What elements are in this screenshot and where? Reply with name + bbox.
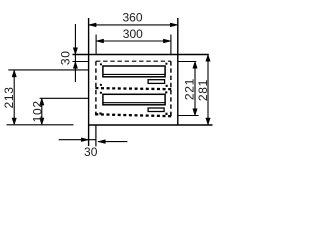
dashed cover outline bottom — [95, 114, 171, 116]
arrow 30top lower (points up) — [73, 62, 77, 69]
arrow 281 top (points up) — [206, 55, 210, 62]
svg-text:30: 30 — [59, 50, 73, 65]
svg-text:30: 30 — [84, 145, 98, 159]
dashed cover outline right — [170, 61, 172, 115]
svg-text:102: 102 — [31, 100, 45, 122]
wire cover top extension left — [73, 61, 89, 63]
arrow 360 right — [170, 23, 178, 27]
terminal block row 1 — [148, 80, 165, 84]
fixing square row2 top-left — [100, 92, 102, 94]
wire 213 top extension — [8, 69, 88, 71]
arrow 102 bottom (points down) — [40, 118, 44, 125]
arrow 213 bottom (points down) — [12, 118, 16, 125]
dimension line 30 bottom — [59, 139, 96, 141]
dimension line 213 — [13, 71, 15, 125]
arrow 102 top (points up) — [40, 98, 44, 105]
svg-text:300: 300 — [123, 27, 143, 41]
enclosure outline — [73, 18, 213, 146]
arrow 30top upper (points down) — [73, 48, 77, 55]
busbar row 2 body — [103, 94, 165, 105]
arrow 360 left — [89, 23, 97, 27]
dashed cover outline top — [96, 60, 171, 62]
busbar row 1 body — [103, 66, 165, 77]
svg-text:213: 213 — [2, 86, 16, 108]
arrow 213 top (points up) — [12, 70, 16, 77]
wire right edge + 360 extension — [177, 18, 179, 125]
fixing square row2 bottom-left — [99, 112, 101, 114]
dashed cover outline left — [95, 61, 97, 115]
svg-text:281: 281 — [196, 79, 210, 101]
arrow 281 bottom (points down) — [206, 118, 210, 125]
node 30 extension below enclosure — [95, 125, 97, 146]
arrow 30bottom right (points left) — [98, 140, 106, 144]
wire 221 top extension right — [178, 61, 197, 63]
wire top edge with left 30 tail and right 281 extension — [73, 54, 209, 56]
wire bottom edge with right 281 extension — [89, 124, 213, 126]
dashed cover corner left — [95, 112, 97, 115]
arrow 221 bottom (points down) — [193, 109, 197, 116]
dimension line 30 top-left vertical — [74, 24, 76, 82]
fixing square row1 top-left — [100, 63, 102, 65]
extension 300 right — [170, 35, 172, 55]
wire left edge + 360 extension + bottom 30 extension — [88, 18, 90, 146]
fixing square row1 bottom-right — [166, 85, 168, 87]
arrow 221 top (points up) — [193, 62, 197, 69]
dimension line 281 — [207, 55, 209, 124]
svg-text:221: 221 — [183, 78, 197, 100]
arrow 30bottom left (points right) — [81, 138, 89, 142]
dashed cover corner right — [170, 112, 172, 116]
dashed section divider middle — [95, 88, 171, 89]
wire 102 extension — [40, 97, 89, 99]
dimension line 102 — [41, 99, 43, 124]
fixing square row1 bottom-left — [100, 84, 102, 86]
dimension line 30 bottom right part — [98, 141, 128, 143]
terminal block row 2 — [148, 108, 164, 112]
fixing square row2 top-right — [165, 91, 167, 93]
fixing square row2 bottom-right — [165, 113, 167, 115]
svg-text:360: 360 — [122, 10, 142, 24]
busbar row 1 inner line — [103, 73, 165, 75]
fixing square row1 top-right — [165, 63, 167, 65]
wire 213/102 bottom extension — [7, 124, 74, 126]
dimension line 221 — [194, 62, 196, 115]
busbar row 2 inner line — [103, 102, 165, 104]
arrow 300 right — [163, 39, 171, 43]
dimension line 360 — [89, 24, 177, 26]
wire 221 bottom extension right — [178, 115, 199, 117]
dimension line 300 — [97, 40, 171, 42]
arrow 300 left — [96, 39, 104, 43]
extension 300 left — [95, 35, 97, 55]
